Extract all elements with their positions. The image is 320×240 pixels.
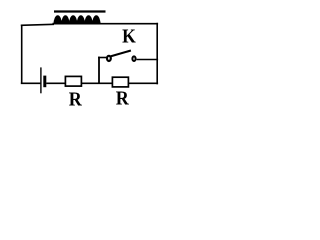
inductor core bar xyxy=(54,10,106,12)
wire: top left segment xyxy=(21,24,54,25)
switch K lever (open blade) xyxy=(111,51,131,57)
wire: bottom, right of battery xyxy=(46,82,158,84)
resistor R2 box xyxy=(112,77,128,87)
wire: right vertical xyxy=(156,23,158,85)
switch K right contact circle xyxy=(132,56,135,61)
wire: switch to right vertical xyxy=(137,59,159,61)
wire: bottom, left of battery xyxy=(21,82,41,84)
resistor R1 box xyxy=(65,76,81,86)
wire: switch branch horizontal left stub xyxy=(98,57,107,59)
battery short thick plate xyxy=(43,76,46,88)
battery long plate xyxy=(40,67,42,93)
inductor L coil xyxy=(53,15,101,24)
wire: left vertical xyxy=(21,25,23,84)
wire: top right segment xyxy=(100,23,159,25)
wire: switch branch vertical at node between R1 and R2 xyxy=(98,57,100,84)
svg-text:R: R xyxy=(116,88,130,108)
svg-text:K: K xyxy=(122,25,136,48)
switch K left contact circle xyxy=(107,56,111,61)
svg-text:R: R xyxy=(69,89,83,108)
